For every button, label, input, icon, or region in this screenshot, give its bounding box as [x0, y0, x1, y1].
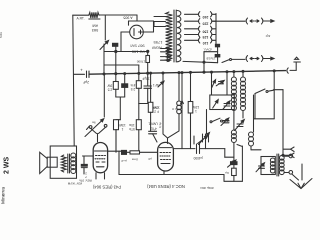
svg-text:150: 150: [203, 29, 209, 33]
svg-text:(DVU,: (DVU,: [203, 48, 211, 52]
svg-text:NOC.4 (RENS UB4): NOC.4 (RENS UB4): [147, 184, 185, 189]
svg-text:+: +: [80, 68, 83, 73]
svg-text:10a: 10a: [129, 123, 135, 127]
svg-text:P43 (RES 964): P43 (RES 964): [92, 185, 121, 190]
svg-text:17000: 17000: [136, 60, 145, 64]
svg-text:13W: 13W: [119, 123, 126, 127]
svg-text:AM/: AM/: [92, 24, 98, 28]
svg-text:Ums: Ums: [131, 158, 138, 162]
svg-text:110: 110: [203, 41, 209, 45]
svg-text:#03µ 30Ω: #03µ 30Ω: [200, 186, 214, 190]
svg-text:ИЗУ 'ЖУМ: ИЗУ 'ЖУМ: [67, 182, 82, 186]
svg-text:7: 7: [85, 175, 87, 179]
svg-text:µ+3: µ+3: [121, 159, 126, 163]
svg-text:1: 1: [121, 127, 123, 131]
svg-text:2µF: 2µF: [83, 80, 89, 84]
svg-text:A.RT.: A.RT.: [76, 16, 84, 20]
svg-text:5M3: 5M3: [92, 28, 99, 32]
svg-text:µ0: µ0: [148, 157, 152, 161]
svg-text:12W: 12W: [193, 105, 200, 109]
svg-text:2: 2: [85, 172, 87, 176]
svg-text:µ4000: µ4000: [193, 156, 202, 160]
svg-text:ΩW: ΩW: [153, 106, 158, 110]
svg-text:Minerva: Minerva: [1, 187, 7, 204]
svg-text:907 SVI: 907 SVI: [130, 44, 144, 49]
svg-text:1795: 1795: [153, 40, 163, 45]
svg-text:125: 125: [203, 35, 209, 39]
svg-text:M4u: M4u: [0, 32, 3, 38]
svg-text:4°02: 4°02: [150, 127, 157, 131]
svg-text:C 8: C 8: [172, 107, 177, 111]
svg-text:240: 240: [203, 15, 209, 19]
svg-text:0,1µ: 0,1µ: [158, 122, 162, 128]
svg-text:220: 220: [203, 22, 209, 26]
svg-text:VO 106: VO 106: [131, 50, 145, 55]
svg-text:a p: a p: [266, 34, 271, 38]
svg-text:2.5: 2.5: [131, 87, 136, 91]
svg-text:2.5: 2.5: [108, 88, 113, 92]
svg-text:3W: 3W: [108, 84, 113, 88]
svg-text:5Tb: 5Tb: [129, 127, 135, 131]
svg-text:4%: 4%: [131, 83, 136, 87]
svg-text:17µ/1B: 17µ/1B: [206, 57, 215, 61]
svg-text:Uµ: Uµ: [225, 171, 229, 175]
svg-text:A 905: A 905: [123, 16, 132, 20]
svg-text:9a: 9a: [92, 121, 96, 125]
svg-text:13µF: 13µF: [142, 77, 149, 81]
svg-text:1: 1: [195, 109, 197, 113]
svg-text:UWV1: UWV1: [148, 122, 158, 126]
svg-text:2 WS: 2 WS: [4, 157, 11, 174]
